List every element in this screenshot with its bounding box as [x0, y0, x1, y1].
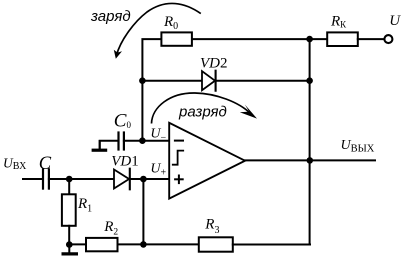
svg-text:C: C	[39, 154, 52, 174]
wire: RK to U terminal	[358, 38, 385, 40]
op-amp hysteresis/step symbol	[173, 151, 183, 165]
wire: top junction to RK	[310, 38, 328, 40]
resistor R0	[161, 32, 192, 45]
arrow: заряд (charge) arc	[114, 3, 201, 58]
ground (C0 side)	[93, 141, 105, 150]
op-amp U1 triangle	[169, 123, 245, 199]
node: R2/R3/U+ rail node	[140, 241, 147, 248]
resistor R1	[62, 194, 76, 226]
svg-text:U: U	[389, 13, 401, 29]
node: top junction R0/RK	[306, 36, 313, 43]
wire: right vertical rail	[309, 39, 311, 244]
diode VD2	[202, 71, 216, 91]
wire: C0 to U- pin	[124, 140, 169, 142]
node: R1/R2/ground node	[66, 241, 73, 248]
svg-text:VD1: VD1	[111, 153, 139, 169]
node: input/R1 tee	[66, 176, 73, 183]
capacitor C0	[119, 133, 124, 150]
node: VD2 anode tee	[139, 77, 146, 84]
wire: mid node to R3	[143, 243, 198, 245]
resistor RK	[327, 32, 358, 46]
resistor R2	[86, 238, 118, 251]
wire: U+ vertical rail	[142, 179, 144, 244]
svg-text:разряд: разряд	[178, 104, 227, 121]
wire: ground node to R2	[69, 243, 86, 245]
wire: left feedback rail (top corner down to U- node)	[142, 39, 161, 141]
node: U+ junction	[140, 176, 147, 183]
wire: R1 branch top	[68, 179, 70, 195]
wire: ground corner to C0 left plate	[100, 141, 119, 149]
op-amp minus sign	[175, 140, 183, 142]
wire: VD1 cathode to U+ pin	[130, 178, 169, 180]
svg-text:заряд: заряд	[90, 8, 131, 25]
resistor R3	[199, 237, 233, 251]
ground (R1 side)	[63, 245, 76, 254]
wire: input Uvx to capacitor C	[23, 178, 43, 180]
wire: op-amp output to Uvyh	[245, 159, 375, 161]
wire: R1 bottom to ground node	[68, 226, 70, 245]
terminal U (circle)	[384, 35, 392, 43]
node: U- junction	[139, 137, 146, 144]
diode VD1	[114, 169, 130, 190]
wire: VD2 cathode to right rail	[216, 80, 310, 82]
wire: C to VD1 anode	[49, 178, 114, 180]
wire: R2 to mid node	[118, 243, 144, 245]
node: VD2 cathode tee	[306, 77, 313, 84]
svg-text:VD2: VD2	[200, 56, 228, 72]
wire: VD2 anode from left rail	[142, 80, 202, 82]
node: output junction	[307, 157, 314, 164]
op-amp plus sign	[175, 176, 183, 184]
wire: R0 to top junction	[192, 38, 310, 40]
arrow: разряд (discharge) arc	[152, 93, 258, 124]
capacitor C	[43, 169, 49, 188]
wire: R3 to right rail corner	[233, 244, 310, 246]
